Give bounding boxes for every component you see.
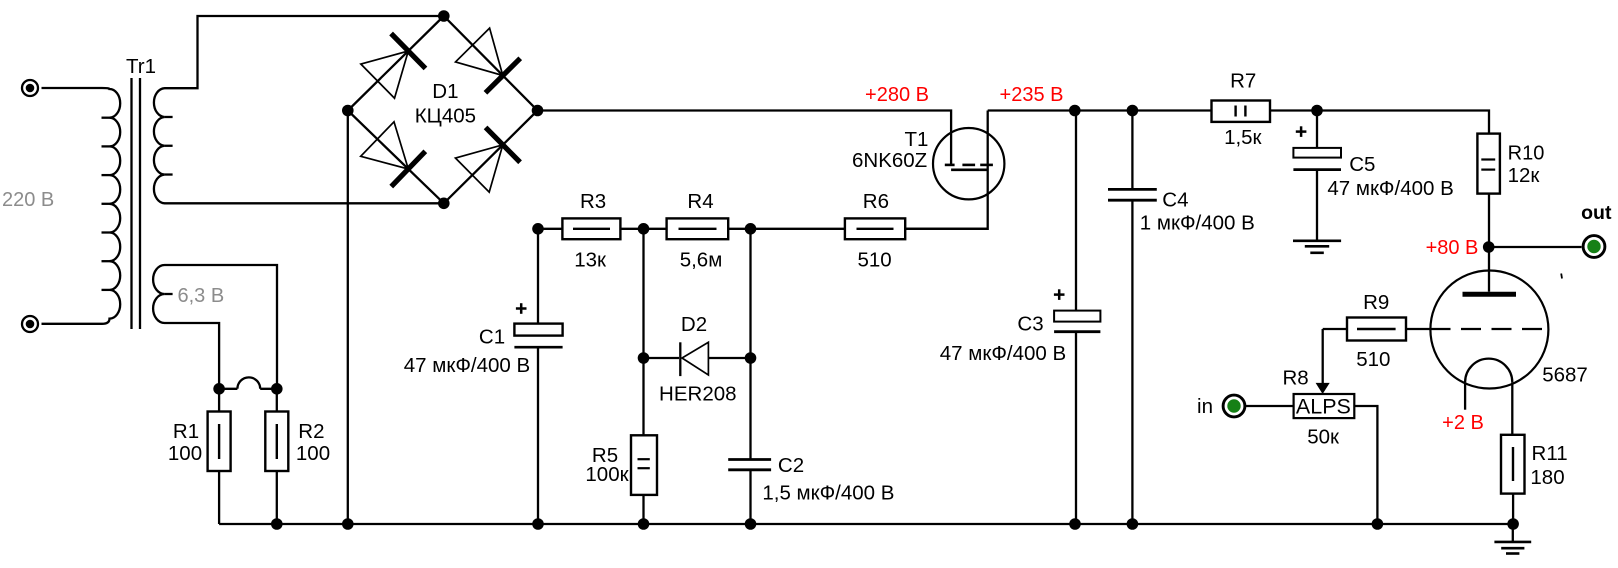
svg-text:out: out	[1581, 202, 1612, 224]
svg-text:C4: C4	[1162, 189, 1188, 212]
svg-text:R9: R9	[1363, 291, 1389, 314]
svg-text:1 мкФ/400 В: 1 мкФ/400 В	[1140, 212, 1255, 235]
svg-text:R11: R11	[1532, 442, 1568, 465]
svg-text:T1: T1	[905, 128, 929, 151]
svg-text:C5: C5	[1349, 153, 1375, 176]
svg-text:1,5 мкФ/400 В: 1,5 мкФ/400 В	[762, 482, 894, 505]
svg-text:R4: R4	[687, 190, 713, 213]
svg-text:R2: R2	[298, 420, 324, 443]
svg-text:5687: 5687	[1542, 364, 1588, 387]
svg-text:47 мкФ/400 В: 47 мкФ/400 В	[940, 342, 1066, 365]
svg-text:in: in	[1197, 395, 1213, 418]
svg-text:R8: R8	[1282, 367, 1308, 390]
svg-text:R1: R1	[173, 420, 199, 443]
svg-text:C3: C3	[1017, 313, 1043, 336]
svg-text:180: 180	[1530, 466, 1564, 489]
svg-text:47 мкФ/400 В: 47 мкФ/400 В	[404, 354, 530, 377]
svg-text:5,6м: 5,6м	[680, 248, 723, 271]
svg-text:+280 В: +280 В	[865, 84, 929, 106]
svg-text:R7: R7	[1230, 70, 1256, 93]
svg-text:Tr1: Tr1	[126, 55, 156, 78]
svg-text:6,3 В: 6,3 В	[178, 285, 225, 307]
svg-text:100: 100	[296, 442, 330, 465]
svg-text:R6: R6	[863, 190, 889, 213]
svg-text:510: 510	[1356, 348, 1390, 371]
svg-text:D1: D1	[432, 80, 458, 103]
svg-text:D2: D2	[681, 313, 707, 336]
svg-text:12к: 12к	[1508, 164, 1541, 187]
svg-text:ALPS: ALPS	[1296, 394, 1351, 418]
svg-text:1,5к: 1,5к	[1224, 126, 1262, 149]
svg-text:+2 В: +2 В	[1442, 412, 1484, 434]
svg-text:HER208: HER208	[659, 383, 737, 406]
svg-text:47 мкФ/400 В: 47 мкФ/400 В	[1327, 177, 1453, 200]
svg-text:КЦ405: КЦ405	[415, 105, 476, 128]
svg-text:+80 В: +80 В	[1426, 237, 1479, 259]
svg-text:510: 510	[857, 248, 891, 271]
svg-text:C1: C1	[479, 326, 505, 349]
svg-text:+235 В: +235 В	[1000, 84, 1064, 106]
svg-text:100: 100	[168, 442, 202, 465]
svg-text:6NK60Z: 6NK60Z	[852, 149, 927, 172]
svg-text:R10: R10	[1508, 143, 1545, 165]
svg-text:R3: R3	[580, 190, 606, 213]
svg-text:C2: C2	[778, 454, 804, 477]
svg-text:100к: 100к	[585, 463, 629, 486]
svg-text:50к: 50к	[1307, 425, 1340, 448]
svg-text:13к: 13к	[574, 248, 607, 271]
svg-text:220 В: 220 В	[2, 189, 54, 211]
